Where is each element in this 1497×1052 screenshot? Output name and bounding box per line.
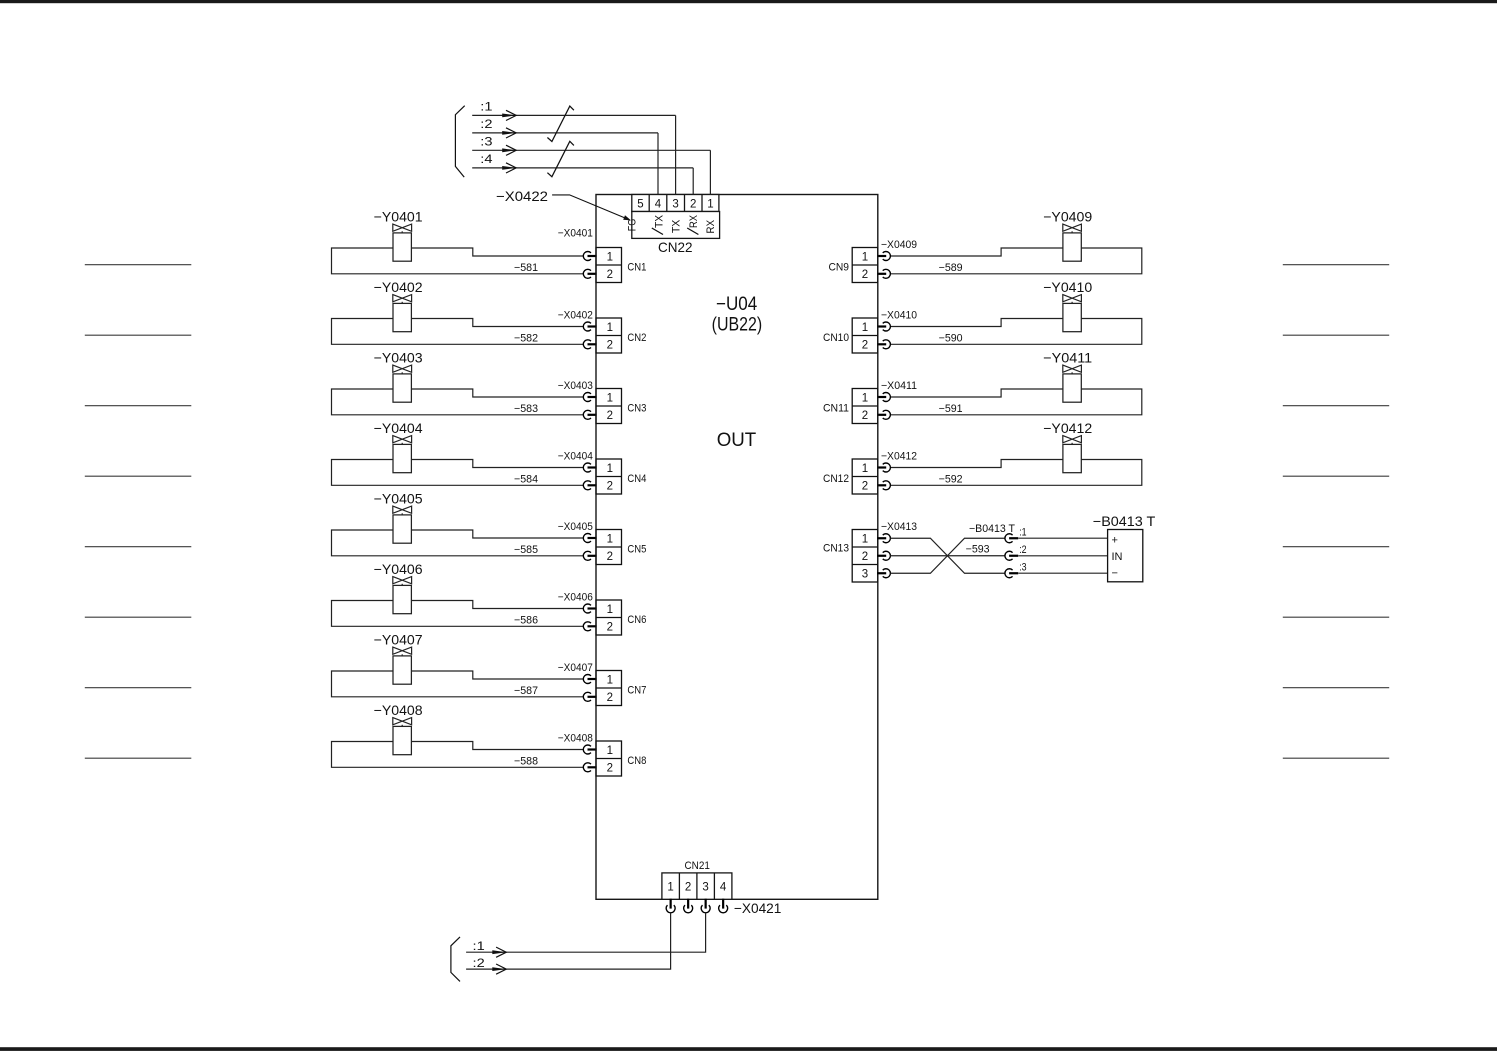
svg-text:−B0413 T: −B0413 T xyxy=(1093,513,1156,529)
svg-text:TX: TX xyxy=(653,214,665,228)
svg-text:−Y0406: −Y0406 xyxy=(374,561,423,577)
svg-text:2: 2 xyxy=(685,881,691,893)
svg-text::2: :2 xyxy=(480,119,492,131)
svg-text:−581: −581 xyxy=(514,262,538,274)
svg-text:CN21: CN21 xyxy=(685,860,710,872)
svg-text::1: :1 xyxy=(473,941,485,953)
svg-text:1: 1 xyxy=(607,392,613,404)
svg-text:−592: −592 xyxy=(939,473,963,485)
svg-text::1: :1 xyxy=(480,102,492,114)
svg-text::2: :2 xyxy=(473,958,485,970)
svg-text:3: 3 xyxy=(702,881,708,893)
svg-text:RX: RX xyxy=(705,219,717,233)
svg-text:−586: −586 xyxy=(514,614,538,626)
svg-text:CN10: CN10 xyxy=(823,332,849,344)
svg-text::3: :3 xyxy=(1019,562,1026,574)
svg-text:1: 1 xyxy=(607,674,613,686)
svg-text:2: 2 xyxy=(607,410,613,422)
svg-text:−Y0405: −Y0405 xyxy=(374,490,423,506)
svg-text:1: 1 xyxy=(862,251,868,263)
svg-text:2: 2 xyxy=(607,340,613,352)
svg-text:−584: −584 xyxy=(514,473,538,485)
svg-text:CN4: CN4 xyxy=(627,473,646,485)
svg-text:CN5: CN5 xyxy=(627,544,646,556)
svg-text:3: 3 xyxy=(672,199,678,211)
svg-text:−Y0412: −Y0412 xyxy=(1043,420,1092,436)
svg-text:OUT: OUT xyxy=(717,429,757,451)
svg-text:−589: −589 xyxy=(939,262,963,274)
svg-text:−X0401: −X0401 xyxy=(558,228,593,240)
svg-text:CN9: CN9 xyxy=(829,262,850,274)
svg-text:1: 1 xyxy=(667,881,673,893)
svg-text:1: 1 xyxy=(607,251,613,263)
svg-text:−Y0410: −Y0410 xyxy=(1043,279,1092,295)
svg-text::2: :2 xyxy=(1019,544,1026,556)
svg-text:−X0421: −X0421 xyxy=(734,900,782,916)
svg-text:−Y0402: −Y0402 xyxy=(374,279,423,295)
svg-text:2: 2 xyxy=(862,340,868,352)
svg-text:−Y0409: −Y0409 xyxy=(1043,208,1092,224)
svg-text:4: 4 xyxy=(720,881,727,893)
svg-text:−X0407: −X0407 xyxy=(558,662,593,674)
svg-text:−B0413 T: −B0413 T xyxy=(969,523,1015,535)
svg-text:2: 2 xyxy=(862,410,868,422)
svg-text:−X0402: −X0402 xyxy=(558,310,593,322)
svg-text:1: 1 xyxy=(862,534,868,546)
svg-text:−X0406: −X0406 xyxy=(558,592,593,604)
svg-text::3: :3 xyxy=(480,136,492,148)
svg-text:1: 1 xyxy=(607,463,613,475)
svg-text:2: 2 xyxy=(607,551,613,563)
svg-text:1: 1 xyxy=(607,745,613,757)
svg-text:2: 2 xyxy=(862,551,868,563)
svg-text:1: 1 xyxy=(607,322,613,334)
svg-text:CN12: CN12 xyxy=(823,473,849,485)
svg-text:−Y0411: −Y0411 xyxy=(1043,349,1092,365)
svg-text:2: 2 xyxy=(607,622,613,634)
svg-text:−X0408: −X0408 xyxy=(558,733,593,745)
svg-text:−590: −590 xyxy=(939,332,963,344)
svg-text:CN8: CN8 xyxy=(627,755,646,767)
svg-text:CN2: CN2 xyxy=(627,332,646,344)
svg-text:−587: −587 xyxy=(514,685,538,697)
svg-text:−Y0404: −Y0404 xyxy=(374,420,423,436)
svg-text:1: 1 xyxy=(862,463,868,475)
svg-text:(UB22): (UB22) xyxy=(712,315,763,336)
svg-text:2: 2 xyxy=(862,269,868,281)
svg-text:1: 1 xyxy=(607,533,613,545)
svg-text:2: 2 xyxy=(607,763,613,775)
svg-text:−X0413: −X0413 xyxy=(881,521,917,533)
svg-text:CN11: CN11 xyxy=(823,403,849,415)
svg-text:RX: RX xyxy=(688,214,700,228)
svg-text:1: 1 xyxy=(707,199,713,211)
svg-text:−Y0403: −Y0403 xyxy=(374,349,423,365)
svg-text:2: 2 xyxy=(690,199,696,211)
svg-text:2: 2 xyxy=(862,481,868,493)
svg-text:−X0422: −X0422 xyxy=(496,188,548,204)
svg-text:−591: −591 xyxy=(939,403,963,415)
svg-text:1: 1 xyxy=(862,322,868,334)
svg-text:CN22: CN22 xyxy=(658,239,693,255)
svg-text:CN6: CN6 xyxy=(627,614,646,626)
svg-text:−Y0407: −Y0407 xyxy=(374,631,423,647)
svg-text:−X0404: −X0404 xyxy=(558,451,593,463)
svg-text:−585: −585 xyxy=(514,544,538,556)
svg-text:−X0403: −X0403 xyxy=(558,380,593,392)
svg-text:1: 1 xyxy=(862,392,868,404)
svg-text:−588: −588 xyxy=(514,755,538,767)
svg-text:2: 2 xyxy=(607,692,613,704)
svg-text:−U04: −U04 xyxy=(716,294,758,315)
svg-text:−: − xyxy=(1112,567,1118,579)
svg-text:−X0412: −X0412 xyxy=(881,451,917,463)
svg-text:−593: −593 xyxy=(966,544,990,556)
svg-text:−582: −582 xyxy=(514,332,538,344)
svg-text:−Y0401: −Y0401 xyxy=(374,208,423,224)
svg-text:2: 2 xyxy=(607,481,613,493)
svg-text:+: + xyxy=(1112,534,1118,546)
svg-text::1: :1 xyxy=(1019,527,1026,539)
svg-text:−583: −583 xyxy=(514,403,538,415)
svg-text:3: 3 xyxy=(862,569,868,581)
svg-text:CN1: CN1 xyxy=(627,262,646,274)
svg-text:5: 5 xyxy=(637,199,643,211)
svg-text:−X0405: −X0405 xyxy=(558,521,593,533)
svg-text:−X0409: −X0409 xyxy=(881,239,917,251)
svg-text:2: 2 xyxy=(607,269,613,281)
svg-text:CN13: CN13 xyxy=(823,543,849,555)
svg-text::4: :4 xyxy=(480,154,493,166)
svg-text:4: 4 xyxy=(655,199,662,211)
svg-text:TX: TX xyxy=(670,219,682,233)
svg-text:−X0410: −X0410 xyxy=(881,310,917,322)
svg-text:−X0411: −X0411 xyxy=(881,380,917,392)
svg-text:CN3: CN3 xyxy=(627,403,646,415)
svg-text:−Y0408: −Y0408 xyxy=(374,702,423,718)
svg-text:1: 1 xyxy=(607,604,613,616)
svg-text:IN: IN xyxy=(1112,551,1123,563)
svg-text:FG: FG xyxy=(627,219,639,232)
svg-text:CN7: CN7 xyxy=(627,685,646,697)
